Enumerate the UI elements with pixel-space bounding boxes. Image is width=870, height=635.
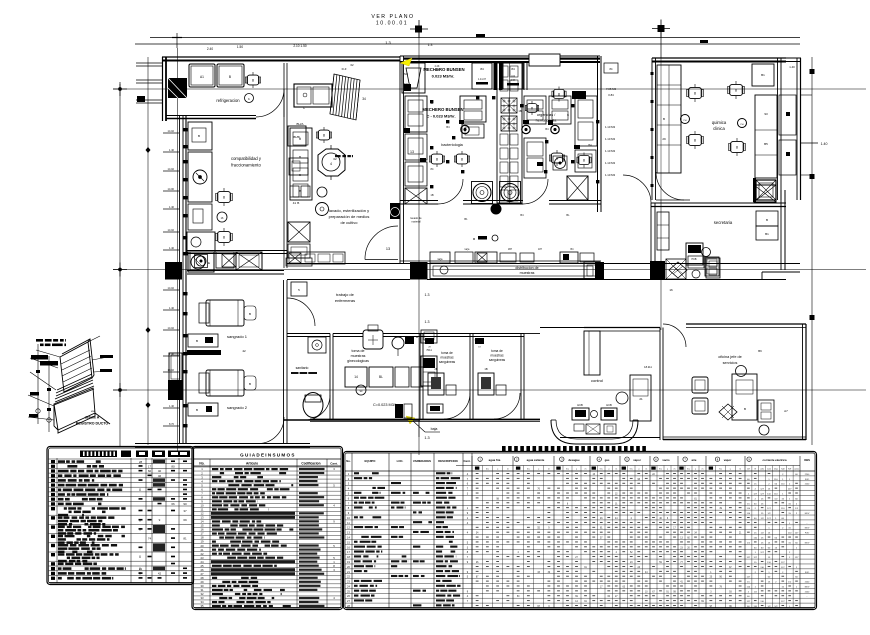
svg-text:EQUIPO: EQUIPO bbox=[365, 459, 377, 463]
sanitario walls bbox=[287, 333, 330, 335]
corridor wall top y263 bbox=[287, 263, 410, 265]
svg-text:vacio: vacio bbox=[662, 458, 669, 462]
gineco circle bbox=[356, 385, 366, 395]
svg-text:7.05 M3: 7.05 M3 bbox=[606, 87, 617, 91]
svg-text:gas: gas bbox=[605, 458, 610, 462]
svg-text:60: 60 bbox=[148, 469, 152, 473]
svg-text:sangrado 2: sangrado 2 bbox=[227, 405, 248, 410]
svg-text:93: 93 bbox=[764, 112, 768, 116]
corridor wall bottom y279 bbox=[287, 279, 410, 281]
svg-text:MOV: MOV bbox=[805, 528, 810, 530]
svg-text:DESCRIPCION: DESCRIPCION bbox=[438, 459, 457, 463]
bench lab col4 upper bbox=[524, 96, 546, 124]
svg-text:agua fria: agua fria bbox=[489, 458, 501, 462]
left duct hatch upper bbox=[137, 96, 145, 102]
svg-text:NO: NO bbox=[404, 72, 408, 76]
svg-text:84: 84 bbox=[480, 67, 484, 71]
svg-text:MOV: MOV bbox=[805, 513, 810, 515]
bed sangrado 2 bbox=[206, 370, 244, 396]
svg-text:Articulo: Articulo bbox=[246, 462, 258, 466]
svg-text:B: B bbox=[416, 335, 418, 339]
detail A leader lines bbox=[36, 350, 60, 357]
right wall stubs quimica bbox=[786, 57, 801, 59]
column x410 y262 bbox=[410, 262, 428, 280]
circle compat d bbox=[317, 187, 327, 197]
hotplate compat bbox=[188, 252, 214, 272]
svg-text:VARIEDADES: VARIEDADES bbox=[413, 459, 431, 463]
left main wall x179-185 bbox=[179, 115, 181, 443]
oficina chair bbox=[736, 366, 747, 377]
svg-text:14.02: 14.02 bbox=[168, 167, 175, 171]
svg-text:A7: A7 bbox=[784, 409, 788, 413]
bench lab col4 lower bbox=[524, 138, 546, 178]
svg-text:1.10 M3: 1.10 M3 bbox=[605, 125, 616, 129]
svg-text:volts: volts bbox=[760, 468, 764, 471]
island hatched burners bbox=[501, 98, 517, 113]
plant diamond oficina bbox=[719, 404, 737, 420]
svg-text:B1: B1 bbox=[761, 73, 765, 77]
diamond plant secretaria bbox=[669, 262, 687, 278]
svg-text:HCB: HCB bbox=[577, 403, 583, 407]
oficina door arc bbox=[663, 324, 686, 347]
exam chair gineco bbox=[363, 330, 383, 349]
table 3 data rows bbox=[345, 470, 815, 472]
svg-text:81: 81 bbox=[183, 537, 187, 541]
svg-text:21: 21 bbox=[639, 397, 643, 401]
corridor equipment right of col x665 bbox=[666, 259, 686, 279]
left service shaft mid bbox=[169, 353, 182, 381]
svg-text:13: 13 bbox=[386, 247, 390, 251]
svg-text:m: m bbox=[548, 469, 550, 471]
window box on lab top wall bbox=[529, 54, 560, 66]
svg-text:B9: B9 bbox=[758, 349, 762, 353]
small black marks lab bbox=[430, 100, 433, 103]
burner dark circles row bbox=[461, 125, 469, 133]
column x595 y262 bbox=[595, 262, 604, 280]
svg-text:m: m bbox=[674, 469, 676, 471]
svg-text:8: 8 bbox=[531, 107, 533, 111]
svg-text:Cont: Cont bbox=[767, 468, 771, 471]
svg-text:sanitario: sanitario bbox=[296, 366, 309, 370]
svg-text:1B: 1B bbox=[518, 109, 521, 113]
table 1 equipment list border bbox=[47, 447, 194, 585]
control L counter bbox=[584, 331, 600, 375]
svg-text:MOV: MOV bbox=[805, 586, 810, 588]
left dim stubs with texts bbox=[163, 132, 179, 134]
svg-text:toma de: toma de bbox=[441, 351, 453, 355]
booth NOB blob left bbox=[405, 337, 414, 344]
svg-text:02: 02 bbox=[350, 63, 354, 67]
svg-text:toma de: toma de bbox=[352, 349, 365, 353]
refrigeracion door arc bbox=[256, 89, 284, 117]
quimica wall dots bbox=[651, 72, 654, 75]
svg-text:tarja: tarja bbox=[438, 258, 443, 261]
svg-text:10.00.01: 10.00.01 bbox=[376, 21, 408, 27]
svg-text:34: 34 bbox=[362, 97, 366, 101]
svg-text:FIJO: FIJO bbox=[805, 479, 810, 481]
distribucion end box bbox=[584, 262, 600, 279]
top outer wall quimica bbox=[652, 57, 786, 59]
svg-text:8: 8 bbox=[735, 89, 737, 93]
cabinet compat low bbox=[188, 204, 212, 230]
svg-text:BL: BL bbox=[566, 213, 570, 217]
svg-text:8: 8 bbox=[323, 134, 325, 138]
mechero alcove bbox=[402, 63, 425, 93]
wall x284 lavado left bbox=[283, 63, 285, 268]
svg-text:80: 80 bbox=[171, 464, 175, 468]
svg-text:B1/BL: B1/BL bbox=[293, 135, 301, 139]
svg-text:B: B bbox=[431, 101, 433, 105]
svg-text:Codificacion: Codificacion bbox=[301, 462, 320, 466]
centerline horizontal y390 bbox=[113, 389, 866, 391]
detail A vertical guide lines bbox=[37, 344, 39, 424]
side table sangrado2 bbox=[188, 403, 218, 416]
svg-text:90: 90 bbox=[183, 502, 187, 506]
trabajo bench band bbox=[287, 252, 345, 264]
distribucion corridor rails bbox=[430, 264, 600, 279]
dark node lab bottom bbox=[491, 204, 501, 214]
svg-text:secretaria: secretaria bbox=[714, 220, 733, 225]
svg-text:muestras: muestras bbox=[440, 356, 454, 360]
door arc sanitario top bbox=[287, 298, 315, 326]
hatch band sangrado bbox=[187, 350, 221, 355]
side table sangrado1 bbox=[188, 334, 218, 347]
oficina right wall bbox=[802, 324, 804, 440]
sanitario door arc bbox=[305, 395, 330, 420]
svg-text:14: 14 bbox=[354, 375, 358, 379]
M symbol mark bbox=[478, 236, 487, 240]
booth2 chair bbox=[478, 373, 494, 395]
svg-text:FIJO: FIJO bbox=[805, 533, 810, 535]
left wall service stubs upper bbox=[136, 62, 162, 64]
svg-text:toma de: toma de bbox=[491, 349, 503, 353]
column x650 y261 bbox=[650, 261, 665, 280]
svg-text:hematologia: hematologia bbox=[536, 119, 558, 123]
detail A dim bars bbox=[31, 355, 48, 360]
booth1 small bbox=[446, 385, 456, 395]
svg-text:fraccionamiento: fraccionamiento bbox=[231, 163, 261, 168]
svg-text:HCB: HCB bbox=[691, 258, 696, 261]
circle small compat bbox=[245, 94, 254, 103]
ph meter circle 2 bbox=[738, 119, 747, 128]
svg-text:1B: 1B bbox=[484, 367, 487, 371]
svg-text:VER PLANO: VER PLANO bbox=[371, 14, 414, 20]
svg-text:B: B bbox=[249, 382, 251, 386]
svg-text:m: m bbox=[507, 469, 509, 471]
sanitario sink bbox=[308, 337, 326, 353]
svg-text:ginecologicas: ginecologicas bbox=[347, 359, 369, 363]
armchair 2 bbox=[692, 398, 708, 414]
booth walls bbox=[419, 334, 421, 420]
left wall small dark marks bbox=[183, 128, 188, 131]
autoclave quimica bbox=[756, 180, 776, 200]
svg-text:69: 69 bbox=[183, 518, 187, 522]
svg-text:B: B bbox=[766, 218, 768, 222]
svg-text:B4: B4 bbox=[588, 143, 592, 147]
centerline horizontal y89 bbox=[113, 88, 866, 90]
oficina desk bbox=[732, 374, 757, 420]
svg-text:baja: baja bbox=[431, 427, 438, 431]
bed sangrado 1 bbox=[206, 300, 244, 326]
left dim line x148 bbox=[147, 57, 149, 445]
svg-text:LVA: LVA bbox=[511, 75, 516, 78]
svg-text:Tabl: Tabl bbox=[781, 469, 785, 471]
svg-text:84: 84 bbox=[511, 67, 515, 71]
stool urg3 bbox=[551, 153, 563, 163]
booth1 NOB blob bbox=[425, 338, 434, 344]
table 1 header band bbox=[80, 451, 117, 458]
compat bottom wall bbox=[187, 250, 287, 252]
svg-text:trabajo de: trabajo de bbox=[336, 292, 355, 297]
svg-text:0.84: 0.84 bbox=[608, 93, 614, 97]
centerline vertical x419 bbox=[418, 37, 420, 455]
svg-text:14.02: 14.02 bbox=[168, 326, 175, 330]
svg-text:bacteriologia: bacteriologia bbox=[441, 143, 463, 147]
reception desk curved bbox=[551, 420, 638, 444]
svg-text:28: 28 bbox=[139, 460, 143, 464]
svg-text:ver: ver bbox=[91, 409, 95, 413]
monitor under booth wall bbox=[427, 404, 443, 413]
svg-text:D.Z: D.Z bbox=[342, 67, 347, 71]
svg-text:2B: 2B bbox=[434, 367, 437, 371]
secretaria desk bbox=[686, 243, 703, 265]
svg-text:de cultivo: de cultivo bbox=[341, 220, 359, 225]
equip dark at wall x400 y205 bbox=[390, 203, 400, 219]
leader baja bbox=[413, 421, 425, 432]
svg-text:urgencias /: urgencias / bbox=[537, 113, 557, 117]
svg-text:1.50: 1.50 bbox=[237, 45, 243, 49]
svg-text:14.02: 14.02 bbox=[168, 129, 175, 133]
table 3 installations matrix border bbox=[344, 452, 817, 610]
booth door arcs bbox=[444, 393, 470, 419]
svg-text:74: 74 bbox=[148, 537, 152, 541]
svg-text:oficina jefe de: oficina jefe de bbox=[718, 355, 741, 359]
yellow highlight baja bbox=[406, 416, 415, 424]
svg-text:B: B bbox=[196, 339, 198, 343]
top cabinets lab bbox=[472, 63, 492, 89]
bottom wall booths bbox=[310, 419, 540, 421]
svg-text:sanguineas: sanguineas bbox=[489, 358, 506, 362]
reception monitor 2 bbox=[601, 408, 617, 420]
secretaria top wall bbox=[651, 202, 786, 204]
svg-text:compatibilidad y: compatibilidad y bbox=[231, 156, 262, 161]
svg-text:8: 8 bbox=[694, 139, 696, 143]
detail A top labels bbox=[36, 339, 43, 342]
wall x598 lab right bbox=[597, 56, 599, 212]
lab bottom wall segments bbox=[400, 200, 438, 202]
xbox lavado low2 bbox=[286, 258, 312, 266]
wall x400 lab left bbox=[399, 56, 401, 263]
secretaria right wall bbox=[780, 190, 782, 270]
autoclave above secretaria bbox=[754, 185, 776, 202]
svg-text:66: 66 bbox=[171, 502, 175, 506]
svg-text:8: 8 bbox=[558, 93, 560, 97]
quimica right wall bbox=[777, 58, 779, 200]
svg-text:127: 127 bbox=[747, 469, 750, 471]
svg-text:1.04: 1.04 bbox=[511, 79, 516, 82]
sink compat bbox=[193, 170, 207, 184]
table 2 column lines bbox=[209, 459, 211, 608]
svg-text:1.3: 1.3 bbox=[424, 436, 429, 440]
oficina top wall bbox=[686, 323, 806, 325]
svg-text:servicios: servicios bbox=[723, 361, 738, 365]
svg-text:preparación de medios: preparación de medios bbox=[329, 214, 370, 219]
svg-text:control: control bbox=[591, 378, 603, 383]
refrigeracion bottom wall bbox=[166, 115, 256, 117]
lab door arc right bbox=[523, 179, 548, 204]
wall right of booths bbox=[524, 333, 540, 335]
svg-text:1.40: 1.40 bbox=[169, 404, 175, 408]
svg-text:8: 8 bbox=[556, 157, 558, 161]
lamp gineco bbox=[392, 337, 404, 349]
svg-text:8: 8 bbox=[583, 159, 585, 163]
svg-text:1B: 1B bbox=[430, 193, 433, 197]
svg-text:C - 0.023 M3/hr.: C - 0.023 M3/hr. bbox=[426, 114, 455, 119]
lavado door arc bbox=[365, 226, 398, 260]
dark equip x395-415 y405 bbox=[395, 404, 403, 418]
svg-text:BU/A: BU/A bbox=[296, 122, 303, 126]
svg-text:B: B bbox=[229, 75, 231, 79]
centerline horizontal y269 bbox=[113, 269, 866, 271]
secretaria bottom wall bbox=[655, 279, 762, 281]
svg-text:m: m bbox=[739, 469, 741, 471]
refrigerator unit 2 bbox=[217, 64, 244, 87]
circle small lavado bbox=[316, 203, 329, 216]
stair autoclave hatched bbox=[330, 74, 360, 120]
svg-text:8: 8 bbox=[252, 79, 254, 83]
stool compat a bbox=[247, 75, 259, 85]
svg-text:46: 46 bbox=[158, 474, 162, 478]
refrigerator unit 1 bbox=[189, 64, 215, 87]
svg-text:2.10 1.50: 2.10 1.50 bbox=[293, 44, 307, 48]
svg-text:29: 29 bbox=[662, 137, 666, 141]
svg-text:detalle A: detalle A bbox=[85, 416, 100, 420]
svg-text:B: B bbox=[249, 312, 251, 316]
svg-text:1.3: 1.3 bbox=[425, 293, 430, 297]
trapecio window right of lab bbox=[604, 63, 618, 73]
svg-text:1.40: 1.40 bbox=[789, 65, 795, 69]
svg-text:13: 13 bbox=[410, 150, 414, 154]
svg-text:4: 4 bbox=[330, 162, 332, 166]
svg-text:material: material bbox=[411, 220, 421, 224]
svg-text:8: 8 bbox=[223, 196, 225, 200]
svg-text:14.02: 14.02 bbox=[168, 286, 175, 290]
corridor bench x475-600 bbox=[475, 252, 497, 263]
kettle autoclave octagon bbox=[318, 149, 345, 176]
svg-text:Cant.: Cant. bbox=[464, 459, 471, 463]
svg-text:1.40: 1.40 bbox=[821, 142, 828, 146]
equip right gineco bbox=[421, 356, 437, 386]
bench urgencias right bbox=[575, 96, 597, 146]
svg-text:MECHERO BUNSEN: MECHERO BUNSEN bbox=[422, 107, 463, 112]
lab bottom wall y263 dark bbox=[400, 260, 601, 262]
grid node B x661 bbox=[652, 28, 670, 30]
svg-text:vapor: vapor bbox=[633, 458, 642, 462]
svg-text:8: 8 bbox=[736, 146, 738, 150]
svg-text:clinica: clinica bbox=[713, 126, 725, 131]
svg-text:7011: 7011 bbox=[426, 348, 432, 352]
dim tick mark 480 bbox=[476, 34, 485, 37]
svg-text:2.40: 2.40 bbox=[207, 47, 213, 51]
bench lavado left bbox=[288, 126, 306, 146]
wall x660 bbox=[659, 328, 661, 441]
svg-text:LOC.: LOC. bbox=[397, 459, 404, 463]
mechero alcove dark blob bbox=[404, 84, 411, 91]
svg-text:8: 8 bbox=[223, 236, 225, 240]
grid node A x419 bbox=[410, 28, 428, 30]
secretaria printer table bbox=[705, 257, 719, 276]
svg-text:lavado de: lavado de bbox=[410, 216, 422, 220]
svg-text:B: B bbox=[663, 117, 665, 121]
top dimension line lower bbox=[135, 43, 800, 45]
stool hema bbox=[578, 155, 589, 164]
svg-text:KW: KW bbox=[788, 469, 791, 471]
svg-text:agua caliente: agua caliente bbox=[527, 458, 545, 462]
svg-text:OBS: OBS bbox=[804, 458, 810, 462]
control desk bbox=[630, 375, 651, 421]
svg-text:No.: No. bbox=[199, 462, 204, 466]
corridor equip x430-470 bbox=[430, 252, 450, 263]
reception items bbox=[591, 411, 598, 418]
table 1 column lines bbox=[56, 458, 58, 583]
svg-text:16: 16 bbox=[669, 288, 673, 292]
svg-text:B: B bbox=[198, 134, 200, 138]
stool quim 4 bbox=[730, 141, 744, 152]
ph meter circle 1 bbox=[681, 115, 690, 124]
gineco cabinets row bbox=[345, 367, 367, 387]
right dim arrow y143 bbox=[800, 142, 818, 144]
svg-text:muestras: muestras bbox=[351, 354, 366, 358]
svg-text:187: 187 bbox=[538, 248, 543, 251]
side cabinet oficina bbox=[758, 400, 774, 422]
sink urg bbox=[553, 156, 567, 170]
sangrado bottom outer wall bbox=[135, 443, 310, 445]
xbox lab left low bbox=[405, 188, 427, 204]
table 1 rows bbox=[49, 458, 193, 460]
stool quim 2 bbox=[729, 84, 743, 95]
island small boxes bbox=[500, 66, 508, 77]
svg-text:MOV: MOV bbox=[805, 542, 810, 544]
svg-text:42: 42 bbox=[158, 572, 162, 576]
stool compat b2 bbox=[217, 231, 231, 242]
cabinet quimica topright bbox=[752, 64, 774, 86]
svg-text:1.10 M3: 1.10 M3 bbox=[605, 149, 616, 153]
cross node x120 y390 bbox=[113, 389, 127, 391]
bench quimica left bbox=[657, 65, 681, 173]
table 3 left column lines bbox=[351, 453, 353, 608]
svg-text:m: m bbox=[645, 469, 647, 471]
svg-text:B4: B4 bbox=[545, 127, 549, 131]
svg-text:B4: B4 bbox=[520, 213, 524, 217]
circle compat mid bbox=[217, 212, 227, 222]
equip column x550 bbox=[549, 96, 571, 124]
svg-text:18.211: 18.211 bbox=[644, 365, 652, 369]
svg-text:1.10 M3: 1.10 M3 bbox=[605, 161, 616, 165]
top cabinet 2 bbox=[503, 63, 523, 89]
quimica door arc bbox=[656, 172, 684, 200]
svg-text:conex: conex bbox=[794, 469, 799, 471]
small table oficina bbox=[759, 425, 769, 435]
armchair 1 bbox=[692, 377, 708, 393]
secretaria cabinets right bbox=[756, 211, 778, 226]
bench compat right side bbox=[290, 128, 312, 200]
svg-text:41 l5: 41 l5 bbox=[293, 201, 300, 205]
svg-text:corriente electrica: corriente electrica bbox=[762, 458, 787, 462]
quimica left wall bbox=[651, 58, 653, 200]
svg-text:FIJO: FIJO bbox=[805, 572, 810, 574]
svg-text:C=0.023 M3/h: C=0.023 M3/h bbox=[373, 403, 397, 407]
svg-text:muestras: muestras bbox=[490, 354, 504, 358]
